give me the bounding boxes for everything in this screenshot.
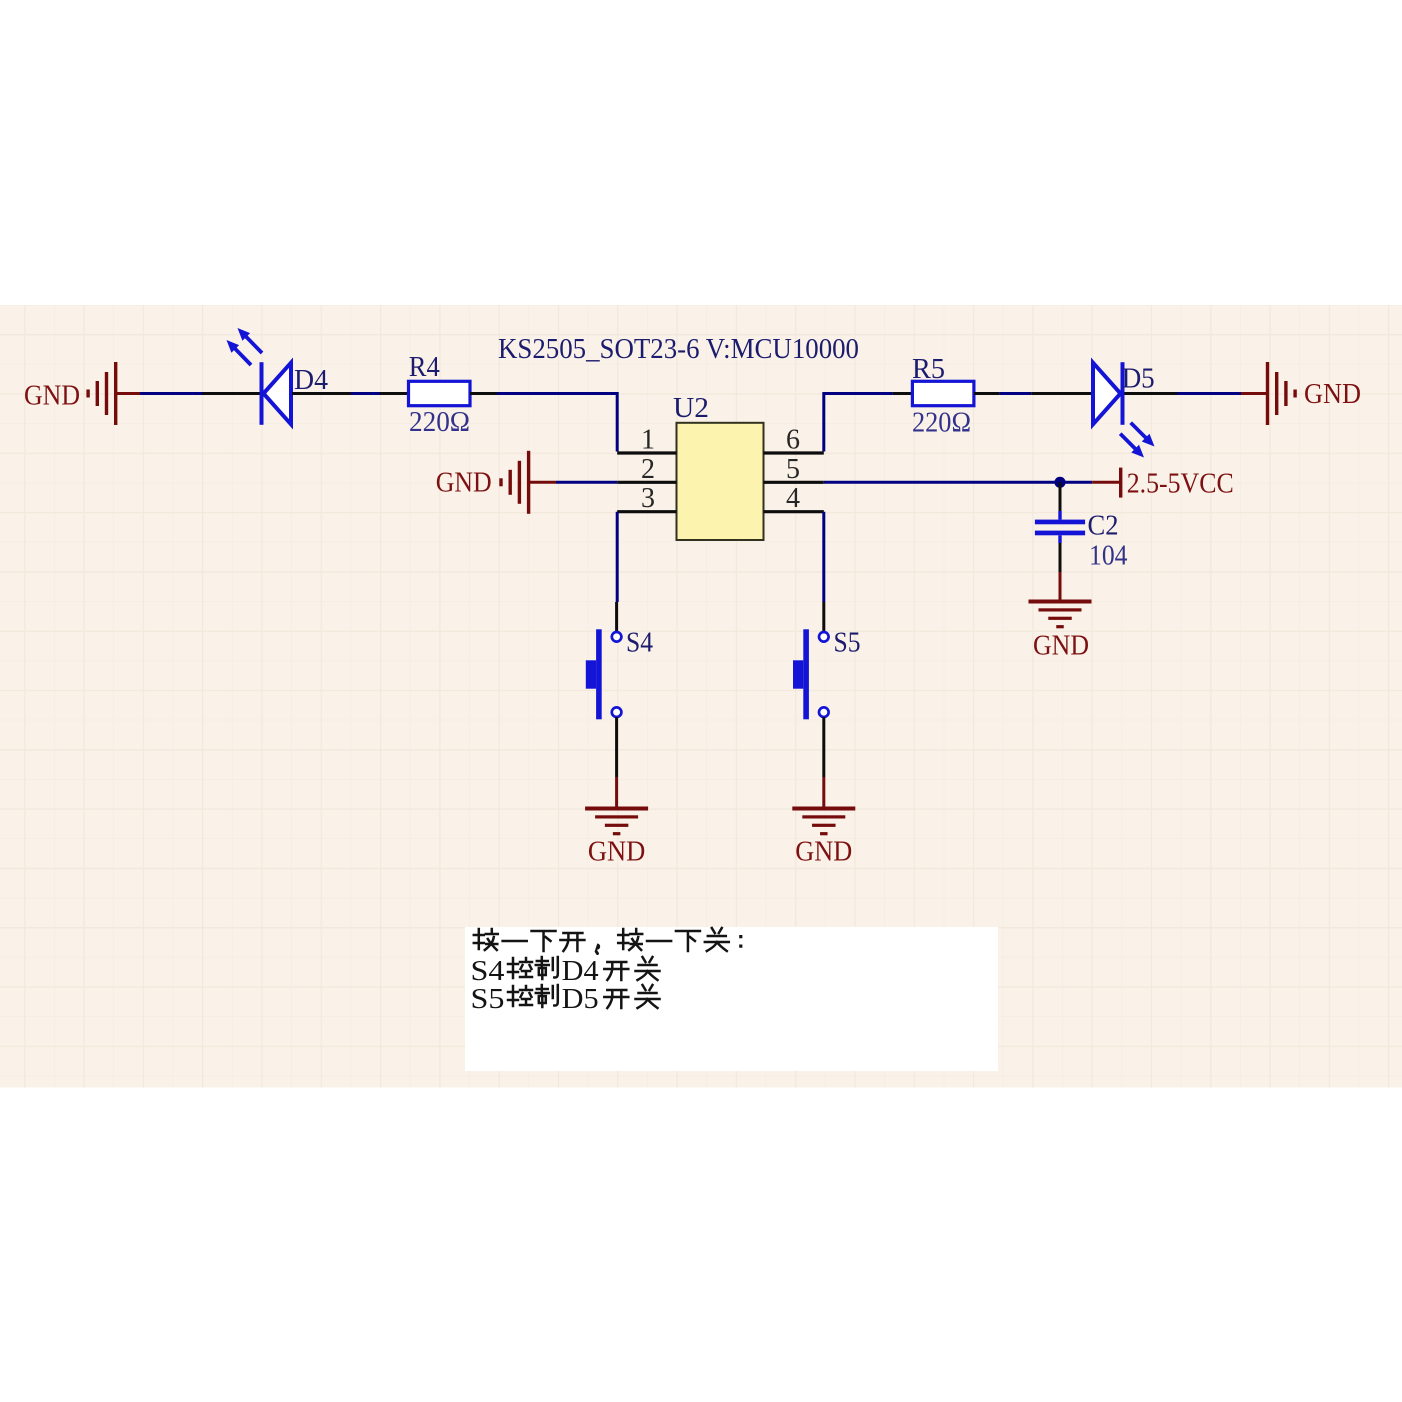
label R4 — [409, 352, 440, 383]
label D5 — [1122, 364, 1155, 395]
ground GND under C2 — [1029, 600, 1092, 662]
switch S5 — [793, 629, 829, 719]
D5 anode pin — [1031, 392, 1092, 395]
op U2 body — [677, 423, 764, 540]
U2 pin 3 — [617, 483, 676, 514]
junction node — [1054, 477, 1065, 488]
note text line 3 — [471, 983, 660, 1015]
U2 pin 5 — [764, 454, 824, 485]
svg-text:U2: U2 — [673, 393, 709, 424]
wire R5 to D5 — [999, 392, 1031, 395]
resistor R5 — [912, 381, 974, 405]
svg-text:5: 5 — [786, 454, 800, 485]
R4 left pin — [380, 392, 409, 395]
value 220ohm R5 — [912, 408, 971, 439]
svg-text:GND: GND — [1033, 631, 1089, 662]
LED D4 — [227, 328, 292, 425]
ground GND under S5 — [792, 807, 855, 868]
S5 bottom pin / wire to GND — [822, 717, 825, 807]
label C2 — [1088, 511, 1119, 542]
U2 pin 1 — [617, 425, 676, 456]
svg-text:GND: GND — [588, 837, 646, 868]
svg-text:R4: R4 — [409, 352, 440, 383]
wire D4 to R4 — [351, 392, 380, 395]
ground GND under S4 — [585, 807, 648, 868]
title KS2505_SOT23-6 V:MCU10000 — [498, 334, 859, 365]
svg-text:C2: C2 — [1088, 511, 1119, 542]
wire U2 pin3 to S4 — [616, 512, 619, 602]
wire U2 pin5 to VCC — [824, 481, 1092, 484]
U2 pin 4 — [764, 483, 824, 514]
switch S4 — [586, 629, 622, 719]
R5 right pin — [974, 392, 1000, 395]
wire GND to D4 — [140, 392, 203, 395]
S4 top pin — [615, 602, 618, 632]
capacitor C2 — [1035, 511, 1085, 543]
svg-text:D4: D4 — [294, 365, 328, 396]
svg-text:S5: S5 — [471, 983, 505, 1015]
D4 cathode pin — [203, 392, 262, 395]
label S4 — [626, 627, 653, 658]
svg-text:S5: S5 — [834, 627, 861, 658]
wire D5 to GND right — [1177, 392, 1241, 395]
S4 bottom pin / wire to GND — [615, 717, 618, 807]
wire C2 to GND — [1059, 543, 1062, 600]
wire U2 pin4 to S5 — [822, 512, 825, 602]
note text line 1 — [474, 928, 743, 955]
wire U2 pin6 to R5 — [824, 394, 893, 452]
label U2 — [673, 393, 709, 424]
S5 top pin — [822, 602, 825, 632]
svg-text:GND: GND — [24, 381, 80, 412]
wire junction to C2 — [1059, 482, 1062, 511]
note box — [465, 927, 998, 1071]
svg-text:GND: GND — [1304, 379, 1361, 410]
D5 cathode pin — [1125, 392, 1178, 395]
svg-text:3: 3 — [641, 483, 655, 514]
svg-text:1: 1 — [641, 425, 655, 456]
R5 left pin — [892, 392, 913, 395]
svg-text:D5: D5 — [562, 983, 599, 1015]
svg-text:220Ω: 220Ω — [409, 407, 470, 438]
svg-text:R5: R5 — [912, 354, 945, 385]
svg-text:220Ω: 220Ω — [912, 408, 971, 439]
svg-text:GND: GND — [436, 468, 492, 499]
svg-text:4: 4 — [786, 483, 800, 514]
note text line 2 — [471, 955, 660, 987]
svg-text:104: 104 — [1089, 541, 1128, 572]
svg-text:KS2505_SOT23-6 V:MCU10000: KS2505_SOT23-6 V:MCU10000 — [498, 334, 859, 365]
U2 pin 6 — [764, 425, 824, 456]
U2 pin 2 — [617, 454, 676, 485]
wire GND to U2 pin2 — [556, 481, 617, 484]
R4 right pin — [470, 392, 497, 395]
svg-text:2.5-5VCC: 2.5-5VCC — [1127, 469, 1234, 500]
resistor R4 — [409, 381, 471, 405]
schematic sheet band — [0, 305, 1402, 1088]
label R5 — [912, 354, 945, 385]
svg-text:2: 2 — [641, 454, 655, 485]
power port GND left — [24, 362, 140, 425]
power port 2.5-5VCC — [1092, 468, 1234, 500]
svg-text:D5: D5 — [1122, 364, 1155, 395]
svg-text:GND: GND — [795, 837, 852, 868]
label D4 — [294, 365, 328, 396]
power port GND right — [1241, 362, 1361, 425]
svg-text:S4: S4 — [626, 627, 653, 658]
value 220ohm R4 — [409, 407, 470, 438]
wire R4 to U2 pin1 — [497, 394, 617, 452]
D4 anode pin — [292, 392, 351, 395]
LED D5 — [1093, 362, 1155, 457]
value 104 — [1089, 541, 1128, 572]
power port GND mid — [436, 451, 556, 514]
label S5 — [834, 627, 861, 658]
svg-text:6: 6 — [786, 425, 800, 456]
